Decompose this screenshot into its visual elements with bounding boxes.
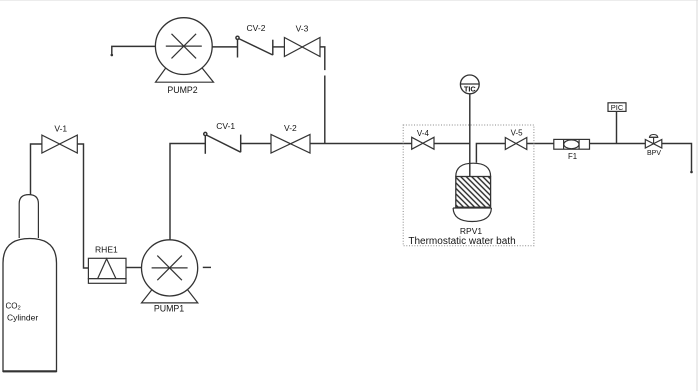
svg-text:PUMP2: PUMP2: [167, 85, 197, 95]
svg-text:V-1: V-1: [54, 123, 67, 133]
svg-text:V-2: V-2: [284, 123, 297, 133]
svg-text:V-3: V-3: [296, 24, 309, 34]
svg-text:RHE1: RHE1: [95, 245, 118, 255]
svg-text:V-5: V-5: [511, 128, 524, 137]
svg-text:Cylinder: Cylinder: [7, 312, 38, 322]
svg-text:PUMP1: PUMP1: [154, 304, 184, 314]
svg-text:CV-2: CV-2: [247, 23, 266, 33]
svg-text:PIC: PIC: [611, 103, 624, 112]
svg-text:BPV: BPV: [647, 150, 661, 157]
svg-text:CV-1: CV-1: [216, 121, 235, 131]
svg-text:RPV1: RPV1: [460, 226, 482, 236]
svg-text:TIC: TIC: [464, 84, 477, 93]
svg-text:F1: F1: [568, 152, 577, 161]
svg-text:V-4: V-4: [417, 129, 430, 138]
svg-text:Thermostatic water bath: Thermostatic water bath: [408, 236, 515, 247]
